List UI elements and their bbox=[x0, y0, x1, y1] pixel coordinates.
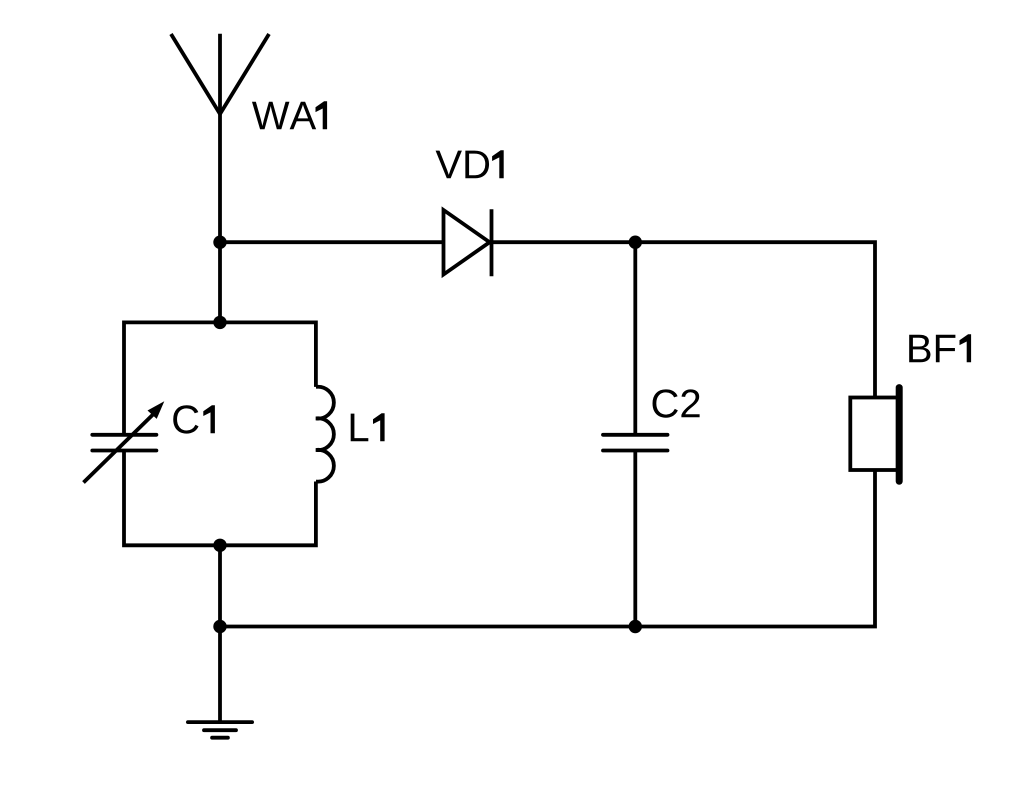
diode VD1 bbox=[444, 209, 492, 276]
wire: C2 branch upper bbox=[633, 242, 637, 435]
junction node: tank bottom bbox=[213, 539, 226, 552]
inductor L1 bbox=[316, 387, 334, 482]
label L1 bbox=[351, 413, 385, 441]
label C2 bbox=[653, 389, 700, 417]
wire: C2 branch lower bbox=[633, 451, 637, 627]
ground bbox=[188, 722, 252, 738]
wire: tank bottom edge and sides bbox=[124, 451, 316, 546]
speaker BF1 bbox=[850, 388, 899, 482]
antenna WA1 bbox=[171, 34, 269, 243]
wire: ground lead bbox=[218, 627, 222, 723]
junction node: C2 bottom bbox=[629, 620, 642, 633]
wire: diode cathode to top-right corner and down to BF1 bbox=[492, 242, 876, 397]
capacitor C2 bbox=[603, 435, 668, 451]
junction node: antenna-diode bbox=[213, 236, 226, 249]
label WA1 bbox=[252, 101, 327, 129]
junction node: ground bus left bbox=[213, 620, 226, 633]
wire: tank bottom to ground node bbox=[218, 545, 222, 626]
label C1 bbox=[173, 405, 215, 433]
wire: bottom bus and right side up to BF1 bbox=[220, 470, 875, 627]
label BF1 bbox=[909, 334, 971, 362]
label VD1 bbox=[436, 150, 504, 178]
wire: antenna mast down to tank top bbox=[218, 242, 222, 322]
wire: tank top edge and right upper side bbox=[124, 322, 316, 434]
capacitor C1 bbox=[84, 401, 165, 482]
junction node: tank top bbox=[213, 316, 226, 329]
wire: junction to diode anode bbox=[220, 240, 444, 244]
junction node: C2 top bbox=[629, 236, 642, 249]
